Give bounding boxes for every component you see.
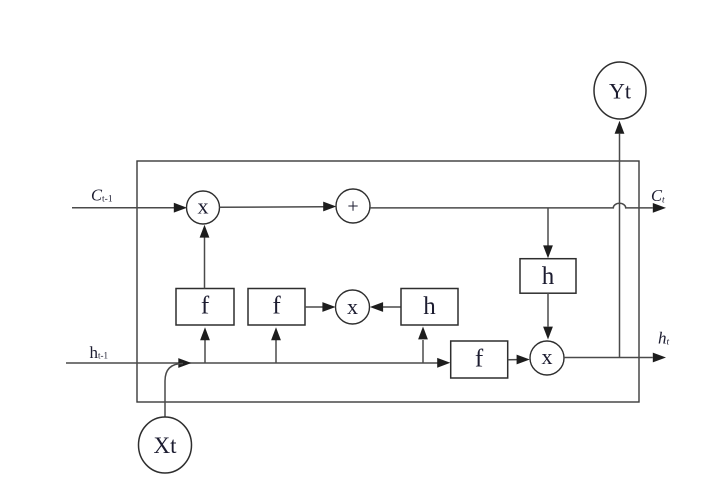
node x1 multiply circle top-left [187, 191, 220, 224]
wire h right down to x3 [543, 293, 553, 339]
svg-text:f: f [272, 293, 281, 320]
svg-text:x: x [198, 194, 209, 219]
box h middle [401, 289, 458, 326]
node x2 multiply circle middle [336, 290, 370, 324]
box f3 bottom right [451, 341, 508, 378]
svg-text:ht: ht [658, 329, 670, 348]
svg-text:Xt: Xt [154, 433, 178, 458]
wire f2 to x2 [305, 302, 336, 312]
box h right [520, 259, 576, 294]
wire branch down to h box right [543, 208, 553, 258]
wire up arrow into f1 [200, 327, 210, 363]
wire h mid to x2 (leftward) [370, 302, 401, 312]
wire up arrow into f2 [271, 327, 281, 363]
wire ht-1 input long line [66, 358, 450, 368]
svg-text:Ct: Ct [651, 186, 665, 206]
box f1 [176, 289, 234, 326]
wire vertical up to Yt [615, 121, 625, 358]
wire f3 to x3 [508, 355, 530, 365]
svg-text:ht-1: ht-1 [90, 343, 109, 362]
svg-text:h: h [542, 263, 555, 290]
node x3 multiply circle bottom right [530, 341, 564, 375]
svg-text:Ct-1: Ct-1 [91, 186, 113, 205]
svg-text:h: h [423, 293, 436, 320]
wire up arrow into h middle [418, 327, 428, 364]
wire f1 up to x1 [200, 225, 210, 289]
svg-text:x: x [347, 294, 358, 319]
node plus adder circle [336, 189, 370, 223]
wire Ct-1 input line [72, 203, 187, 213]
svg-text:f: f [475, 346, 484, 373]
node Yt output circle [594, 62, 646, 119]
wire Xt curve into ht-1 line [165, 364, 183, 418]
node Xt input circle [139, 417, 192, 473]
wire x1 to plus [220, 202, 337, 212]
box f2 [248, 289, 305, 326]
svg-text:+: + [347, 196, 358, 218]
svg-text:Yt: Yt [609, 79, 631, 104]
wire Ct output line with hop over vertical [370, 203, 666, 213]
outer LSTM cell box [137, 161, 639, 402]
svg-text:f: f [201, 293, 210, 320]
wire ht output line [564, 353, 666, 363]
svg-text:x: x [542, 344, 553, 369]
